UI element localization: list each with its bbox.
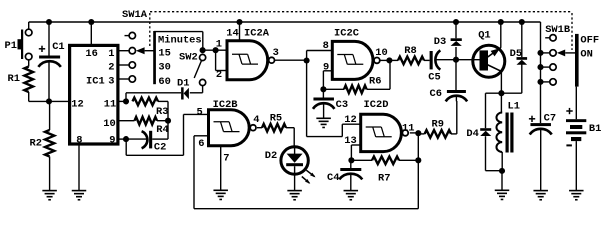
svg-text:16: 16 xyxy=(85,48,97,60)
svg-text:2: 2 xyxy=(216,69,222,81)
svg-text:60: 60 xyxy=(158,76,170,88)
svg-text:IC1: IC1 xyxy=(86,75,105,87)
svg-text:IC2D: IC2D xyxy=(364,99,389,111)
svg-text:C4: C4 xyxy=(327,172,339,184)
svg-text:C5: C5 xyxy=(428,71,440,83)
svg-text:IC2B: IC2B xyxy=(213,99,239,111)
svg-text:D2: D2 xyxy=(265,150,277,162)
svg-text:4: 4 xyxy=(253,114,259,126)
svg-text:D4: D4 xyxy=(466,128,478,140)
svg-text:11: 11 xyxy=(104,98,116,110)
svg-text:1: 1 xyxy=(216,39,222,51)
svg-text:D3: D3 xyxy=(434,36,446,48)
svg-text:R4: R4 xyxy=(156,124,168,136)
svg-text:9: 9 xyxy=(109,134,115,146)
svg-text:3: 3 xyxy=(108,75,114,87)
svg-text:Minutes: Minutes xyxy=(158,34,202,46)
svg-text:R6: R6 xyxy=(369,76,381,88)
svg-text:R8: R8 xyxy=(404,45,416,57)
svg-text:R3: R3 xyxy=(156,106,168,118)
svg-text:SW2: SW2 xyxy=(179,52,198,64)
svg-text:C2: C2 xyxy=(154,141,166,153)
svg-text:ON: ON xyxy=(580,48,592,60)
svg-text:C6: C6 xyxy=(430,88,442,100)
svg-text:SW1B: SW1B xyxy=(545,24,571,36)
svg-text:R9: R9 xyxy=(432,119,444,131)
svg-text:10: 10 xyxy=(375,47,387,59)
svg-text:7: 7 xyxy=(223,152,229,164)
svg-text:R1: R1 xyxy=(8,73,20,85)
svg-text:12: 12 xyxy=(71,98,83,110)
svg-text:L1: L1 xyxy=(508,101,520,113)
svg-text:D1: D1 xyxy=(177,77,189,89)
svg-text:SW1A: SW1A xyxy=(122,9,148,21)
svg-text:3: 3 xyxy=(273,47,279,59)
svg-text:15: 15 xyxy=(158,47,170,59)
svg-text:Q1: Q1 xyxy=(478,29,490,41)
svg-text:B1: B1 xyxy=(589,123,601,135)
svg-text:30: 30 xyxy=(158,62,170,74)
svg-text:6: 6 xyxy=(198,138,204,150)
svg-text:R2: R2 xyxy=(30,138,42,150)
svg-text:IC2A: IC2A xyxy=(244,27,270,39)
svg-text:2: 2 xyxy=(108,62,114,74)
svg-text:R7: R7 xyxy=(378,172,390,184)
svg-text:C7: C7 xyxy=(544,113,556,125)
svg-text:P1: P1 xyxy=(5,40,17,52)
svg-text:14: 14 xyxy=(226,27,238,39)
svg-text:IC2C: IC2C xyxy=(334,28,359,40)
svg-text:R5: R5 xyxy=(270,113,282,125)
svg-text:C1: C1 xyxy=(52,41,64,53)
svg-text:D5: D5 xyxy=(510,48,522,60)
svg-text:C3: C3 xyxy=(336,99,348,111)
svg-text:1: 1 xyxy=(108,48,114,60)
svg-text:8: 8 xyxy=(76,134,82,146)
svg-text:10: 10 xyxy=(103,118,115,130)
svg-text:OFF: OFF xyxy=(580,35,599,47)
svg-text:5: 5 xyxy=(197,106,203,118)
